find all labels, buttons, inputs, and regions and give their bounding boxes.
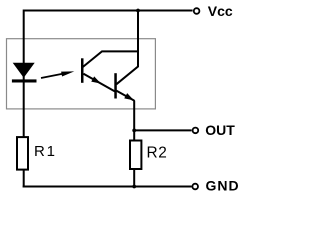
svg-text:R2: R2 (147, 145, 168, 162)
wire Q2 emitter vertical down to ground rail (116, 91, 134, 188)
wire OUT branch (134, 129, 191, 131)
light coupling arrow (41, 69, 75, 78)
node junction OUT (132, 129, 136, 133)
wire collector vertical to top rail and Q2 collector lead (116, 10, 138, 85)
wire Q1 emitter to Q2 base (84, 74, 115, 92)
svg-text:OUT: OUT (205, 122, 235, 138)
resistor R2 body (130, 141, 141, 170)
LED D1 cathode bar (12, 79, 37, 82)
optocoupler package outline U1 (7, 39, 156, 109)
wire top rail from node A to Vcc terminal (24, 10, 193, 12)
terminal Vcc circle (194, 8, 200, 14)
wire bottom ground rail (23, 186, 192, 188)
transistor Q1 emitter arrow (91, 76, 102, 86)
node junction top rail (136, 9, 140, 13)
wire left vertical (anode branch down to ground rail) (23, 10, 25, 188)
transistor Q1 base bar (81, 58, 84, 83)
transistor Q2 emitter arrow (124, 93, 135, 103)
node junction ground (132, 185, 136, 189)
wire Q1 collector lead (83, 51, 138, 67)
LED D1 triangle (anode) (13, 63, 35, 78)
svg-text:R1: R1 (34, 143, 57, 160)
terminal OUT circle (193, 128, 199, 134)
svg-text:GND: GND (206, 178, 240, 194)
svg-text:Vcc: Vcc (208, 3, 233, 19)
resistor R1 body (17, 137, 28, 170)
terminal GND circle (192, 184, 198, 190)
transistor Q2 base bar (114, 73, 117, 98)
